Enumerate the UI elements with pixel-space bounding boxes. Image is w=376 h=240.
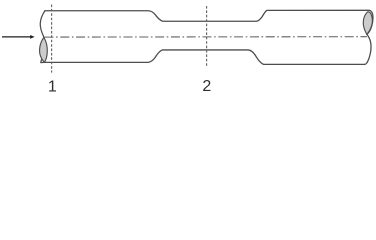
section line 1 (dashed) <box>51 5 53 73</box>
left break silhouette (upper arc) <box>40 11 45 38</box>
left break section face (gray lens) <box>40 37 48 62</box>
shaft top edge with shoulder steps <box>45 10 373 64</box>
centerline (dash-dot axis of shaft) <box>45 36 367 38</box>
flow arrow at left end <box>2 36 31 38</box>
right break section face (gray lens) <box>363 12 372 35</box>
svg-text:2: 2 <box>202 78 211 95</box>
shaft bottom edge with shoulder steps <box>41 50 365 64</box>
section line 2 (dashed) <box>206 6 208 66</box>
svg-text:1: 1 <box>48 79 57 96</box>
